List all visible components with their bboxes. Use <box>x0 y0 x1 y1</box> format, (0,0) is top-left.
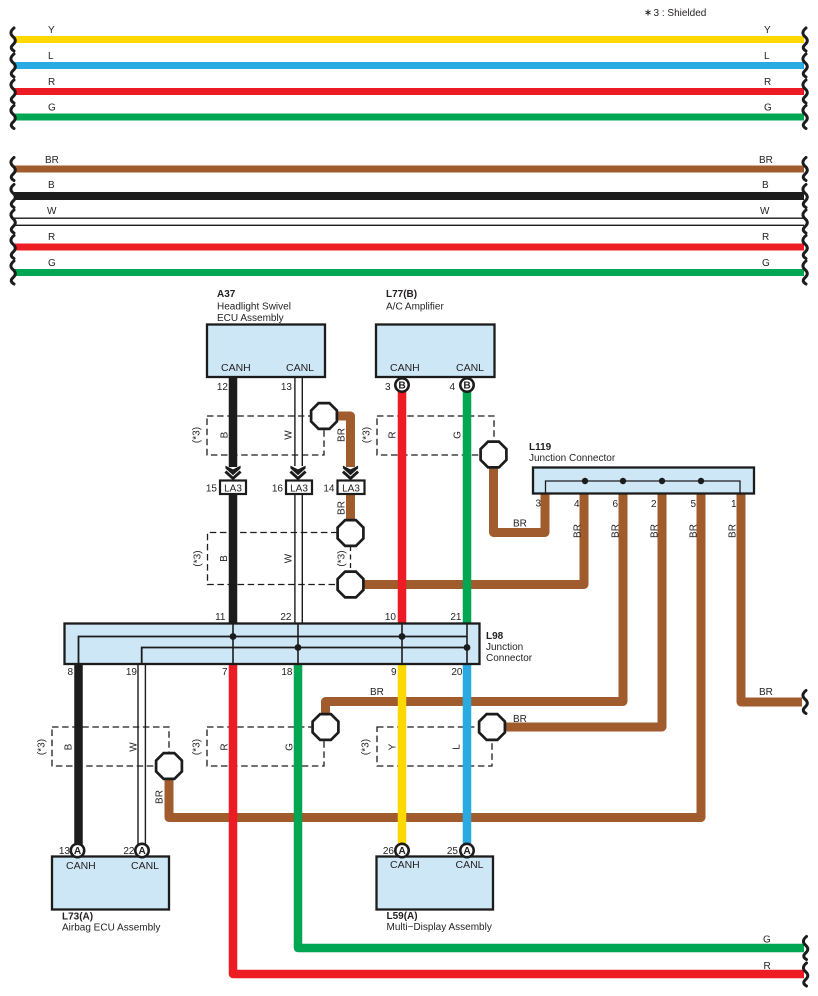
pin circle A of L73 pin13 <box>71 844 84 857</box>
svg-text:L77(B): L77(B) <box>386 289 417 300</box>
svg-text:CANH: CANH <box>390 859 420 871</box>
labels second group <box>45 155 773 269</box>
break squiggle G exit <box>803 937 807 960</box>
svg-text:W: W <box>47 206 57 217</box>
svg-text:18: 18 <box>281 667 293 678</box>
shield octagon O2a <box>338 520 364 546</box>
wire R L77 pin3 to L98 pin 10 <box>398 375 407 626</box>
svg-text:CANH: CANH <box>390 362 420 374</box>
break squiggles second group <box>11 158 807 285</box>
svg-text:CANL: CANL <box>131 860 159 872</box>
svg-text:3 : Shielded: 3 : Shielded <box>654 8 707 19</box>
component box L59(A) <box>377 846 494 933</box>
shield octagon O1 (A37) <box>311 403 337 429</box>
svg-text:11: 11 <box>215 612 226 623</box>
svg-text:W: W <box>284 430 295 440</box>
svg-text:BR: BR <box>155 790 166 804</box>
wire W (second group) <box>14 218 804 227</box>
svg-text:14: 14 <box>323 484 335 495</box>
shield drain wire BR from O6 to L119 pin 2 <box>500 492 662 727</box>
svg-text:1: 1 <box>731 499 737 510</box>
svg-text:A37: A37 <box>217 289 236 300</box>
break squiggle BR pin1 exit <box>803 691 807 714</box>
connector LA3 pin15 <box>206 481 246 495</box>
svg-text:6: 6 <box>612 499 618 510</box>
svg-text:G: G <box>48 258 56 269</box>
wire G L98 pin18 to bottom right exit <box>298 660 804 948</box>
svg-text:L: L <box>764 51 770 62</box>
wire R (second group) <box>14 244 804 251</box>
svg-text:R: R <box>764 77 771 88</box>
wire W L98 pin19 to L73 pin22 <box>138 660 145 848</box>
svg-text:12: 12 <box>217 382 229 393</box>
svg-text:LA3: LA3 <box>290 484 308 495</box>
pin circle A of L73 pin22 <box>135 844 148 857</box>
svg-text:26: 26 <box>383 846 395 857</box>
label BR on O4 drain <box>155 790 166 804</box>
svg-text:ECU Assembly: ECU Assembly <box>217 313 284 324</box>
svg-text:R: R <box>220 743 231 750</box>
svg-text:16: 16 <box>272 484 284 495</box>
junction connector L98 <box>65 612 533 678</box>
svg-text:5: 5 <box>690 499 696 510</box>
svg-text:G: G <box>48 103 56 114</box>
svg-text:R: R <box>762 232 769 243</box>
svg-text:BR: BR <box>45 155 59 166</box>
svg-text:7: 7 <box>222 667 228 678</box>
svg-text:2: 2 <box>651 499 657 510</box>
pin circle A of L59 pin25 <box>460 844 473 857</box>
svg-text:B: B <box>64 743 75 750</box>
svg-text:Y: Y <box>764 25 771 36</box>
svg-text:CANL: CANL <box>456 859 484 871</box>
shield drain wire BR from O3 to L119 pin 3 <box>494 462 546 533</box>
svg-text:(*3): (*3) <box>361 739 372 755</box>
svg-text:G: G <box>764 103 772 114</box>
svg-text:G: G <box>762 258 770 269</box>
shield dashed box D3 (L77 R/G) <box>377 416 494 455</box>
svg-text:L119: L119 <box>529 442 552 453</box>
pin circle B of L77 pin3 <box>395 378 408 391</box>
svg-text:W: W <box>129 742 140 752</box>
svg-text:20: 20 <box>451 667 463 678</box>
svg-text:19: 19 <box>126 667 138 678</box>
label BR beside drain above LA3-14 <box>337 428 348 442</box>
wire R (top group) <box>14 88 804 95</box>
wire Y L98 pin9 to L59 pin26 <box>398 660 407 848</box>
svg-text:B: B <box>48 180 55 191</box>
svg-text:Headlight Swivel: Headlight Swivel <box>217 302 291 313</box>
junction connector L119 <box>529 442 754 510</box>
labels BR under L119 <box>573 524 739 538</box>
shield dashed box D2 (below LA3, B/W) <box>208 533 351 585</box>
svg-text:R: R <box>388 431 399 438</box>
shield drain wire BR from O4 to L119 pin 5 <box>169 492 701 818</box>
svg-text:Junction Connector: Junction Connector <box>529 453 616 464</box>
svg-text:BR: BR <box>611 524 622 538</box>
labels dashed box D5 <box>192 739 296 755</box>
shield dashed box D5 (L59 R/G) <box>207 727 324 766</box>
break squiggles top group <box>11 28 807 129</box>
shield octagon O3 (L77) <box>481 442 507 468</box>
svg-text:(*3): (*3) <box>37 739 48 755</box>
labels dashed box D1 <box>192 427 295 443</box>
labels dashed box D4 <box>37 739 140 755</box>
wire G (second group) <box>14 269 804 276</box>
svg-text:22: 22 <box>280 612 292 623</box>
svg-text:Connector: Connector <box>486 653 533 664</box>
svg-text:A/C Amplifier: A/C Amplifier <box>386 302 444 313</box>
wire G L77 pin4 to L98 pin 21 <box>463 375 472 626</box>
break squiggle R exit <box>803 963 807 986</box>
svg-text:BR: BR <box>370 687 384 698</box>
svg-text:BR: BR <box>759 687 773 698</box>
label R bottom exit <box>764 961 771 972</box>
connector LA3 pin14 <box>323 481 364 495</box>
labels for top group <box>48 25 772 114</box>
svg-text:(*3): (*3) <box>362 427 373 443</box>
svg-text:10: 10 <box>385 612 397 623</box>
svg-text:L73(A): L73(A) <box>62 912 93 923</box>
shield dashed box D1 (A37 B/W) <box>207 416 324 455</box>
svg-text:13: 13 <box>59 846 71 857</box>
label BR on O3 drain <box>513 519 527 530</box>
component box L73(A) <box>52 846 169 934</box>
svg-text:BR: BR <box>759 155 773 166</box>
svg-text:LA3: LA3 <box>224 484 242 495</box>
wire L (top group) <box>14 62 804 69</box>
shield drain wire BR from O1 through LA3-14 to O2a <box>330 416 351 524</box>
svg-text:BR: BR <box>689 524 700 538</box>
shield drain wire BR from O2b to L119 pin 4 <box>353 492 584 585</box>
svg-text:BR: BR <box>573 524 584 538</box>
wire R L98 pin7 to bottom right exit <box>233 660 804 974</box>
svg-text:BR: BR <box>337 501 348 515</box>
svg-text:4: 4 <box>449 382 455 393</box>
shield octagon O5 (L59 R/G) <box>313 714 339 740</box>
svg-text:Y: Y <box>48 25 55 36</box>
labels dashed box D3 <box>362 427 464 443</box>
pin circle B of L77 pin4 <box>460 378 473 391</box>
svg-text:L: L <box>452 744 463 750</box>
wire G (top group) <box>14 114 804 121</box>
arrow into LA3 pin14 <box>343 466 358 479</box>
svg-text:B: B <box>220 431 231 438</box>
label BR below LA3-14 <box>337 501 348 515</box>
svg-text:B: B <box>219 555 230 562</box>
component box L77(B) <box>376 289 495 393</box>
svg-text:CANH: CANH <box>221 362 251 374</box>
svg-text:(*3): (*3) <box>193 550 204 566</box>
label BR on O5 drain <box>370 687 384 698</box>
wire Y (top group) <box>14 36 804 43</box>
wire B (second group) <box>14 192 804 200</box>
shield drain wire BR from L119 pin 1 to right edge <box>741 492 802 702</box>
wire L L98 pin20 to L59 pin25 <box>463 660 472 848</box>
shield drain wire BR from O5 to L119 pin 6 <box>326 492 624 716</box>
svg-text:L98: L98 <box>486 631 504 642</box>
svg-text:(*3): (*3) <box>192 739 203 755</box>
svg-text:BR: BR <box>650 524 661 538</box>
labels dashed box D2 <box>193 550 348 566</box>
svg-text:BR: BR <box>513 519 527 530</box>
svg-text:CANL: CANL <box>456 362 484 374</box>
svg-text:BR: BR <box>337 428 348 442</box>
connector LA3 pin16 <box>272 481 312 495</box>
svg-text:G: G <box>285 743 296 751</box>
shield dashed box D6 (L59 Y/L) <box>377 727 492 766</box>
shield dashed box D4 (L73 B/W) <box>52 727 169 766</box>
label G bottom exit <box>763 935 771 946</box>
labels dashed box D6 <box>361 739 463 755</box>
svg-text:9: 9 <box>391 667 397 678</box>
svg-text:13: 13 <box>281 382 293 393</box>
svg-text:Airbag ECU Assembly: Airbag ECU Assembly <box>62 923 160 934</box>
svg-text:CANL: CANL <box>286 362 314 374</box>
svg-text:R: R <box>48 232 55 243</box>
svg-text:15: 15 <box>206 484 218 495</box>
note: *3 Shielded legend <box>645 8 706 19</box>
arrow into LA3 pin15 <box>225 466 240 479</box>
svg-text:R: R <box>764 961 771 972</box>
svg-text:LA3: LA3 <box>342 484 360 495</box>
svg-text:(*3): (*3) <box>192 427 203 443</box>
svg-text:(*3): (*3) <box>337 550 348 566</box>
shield octagon O4 (L73) <box>156 753 182 779</box>
svg-text:Y: Y <box>388 743 399 750</box>
svg-text:R: R <box>48 77 55 88</box>
label BR on O6 drain <box>513 714 527 725</box>
svg-text:L59(A): L59(A) <box>387 911 418 922</box>
svg-text:22: 22 <box>123 846 135 857</box>
svg-text:8: 8 <box>67 667 73 678</box>
svg-text:CANH: CANH <box>66 860 96 872</box>
svg-text:3: 3 <box>535 499 541 510</box>
component box A37 <box>207 289 325 393</box>
svg-text:W: W <box>284 553 295 563</box>
svg-text:G: G <box>453 431 464 439</box>
svg-text:B: B <box>762 180 769 191</box>
label BR pin1 exit <box>759 687 773 698</box>
svg-text:25: 25 <box>447 846 459 857</box>
wire B L98 pin8 to L73 pin13 <box>74 660 83 848</box>
svg-text:BR: BR <box>728 524 739 538</box>
pin circle A of L59 pin26 <box>395 844 408 857</box>
svg-text:L: L <box>48 51 54 62</box>
arrow into LA3 pin16 <box>290 466 305 479</box>
svg-text:Multi−Display Assembly: Multi−Display Assembly <box>387 922 492 933</box>
svg-text:Junction: Junction <box>486 642 523 653</box>
svg-text:BR: BR <box>513 714 527 725</box>
svg-text:G: G <box>763 935 771 946</box>
svg-text:W: W <box>760 206 770 217</box>
svg-text:3: 3 <box>385 382 391 393</box>
wire B A37 pin12 to L98 pin 11 <box>229 375 238 626</box>
wire BR (second group) <box>14 166 804 173</box>
svg-text:21: 21 <box>450 612 462 623</box>
shield octagon O6 (Y/L) <box>479 714 505 740</box>
svg-text:4: 4 <box>574 499 580 510</box>
shield octagon O2b <box>338 572 364 598</box>
wire W A37 pin13 to L98 pin 22 <box>295 375 302 626</box>
